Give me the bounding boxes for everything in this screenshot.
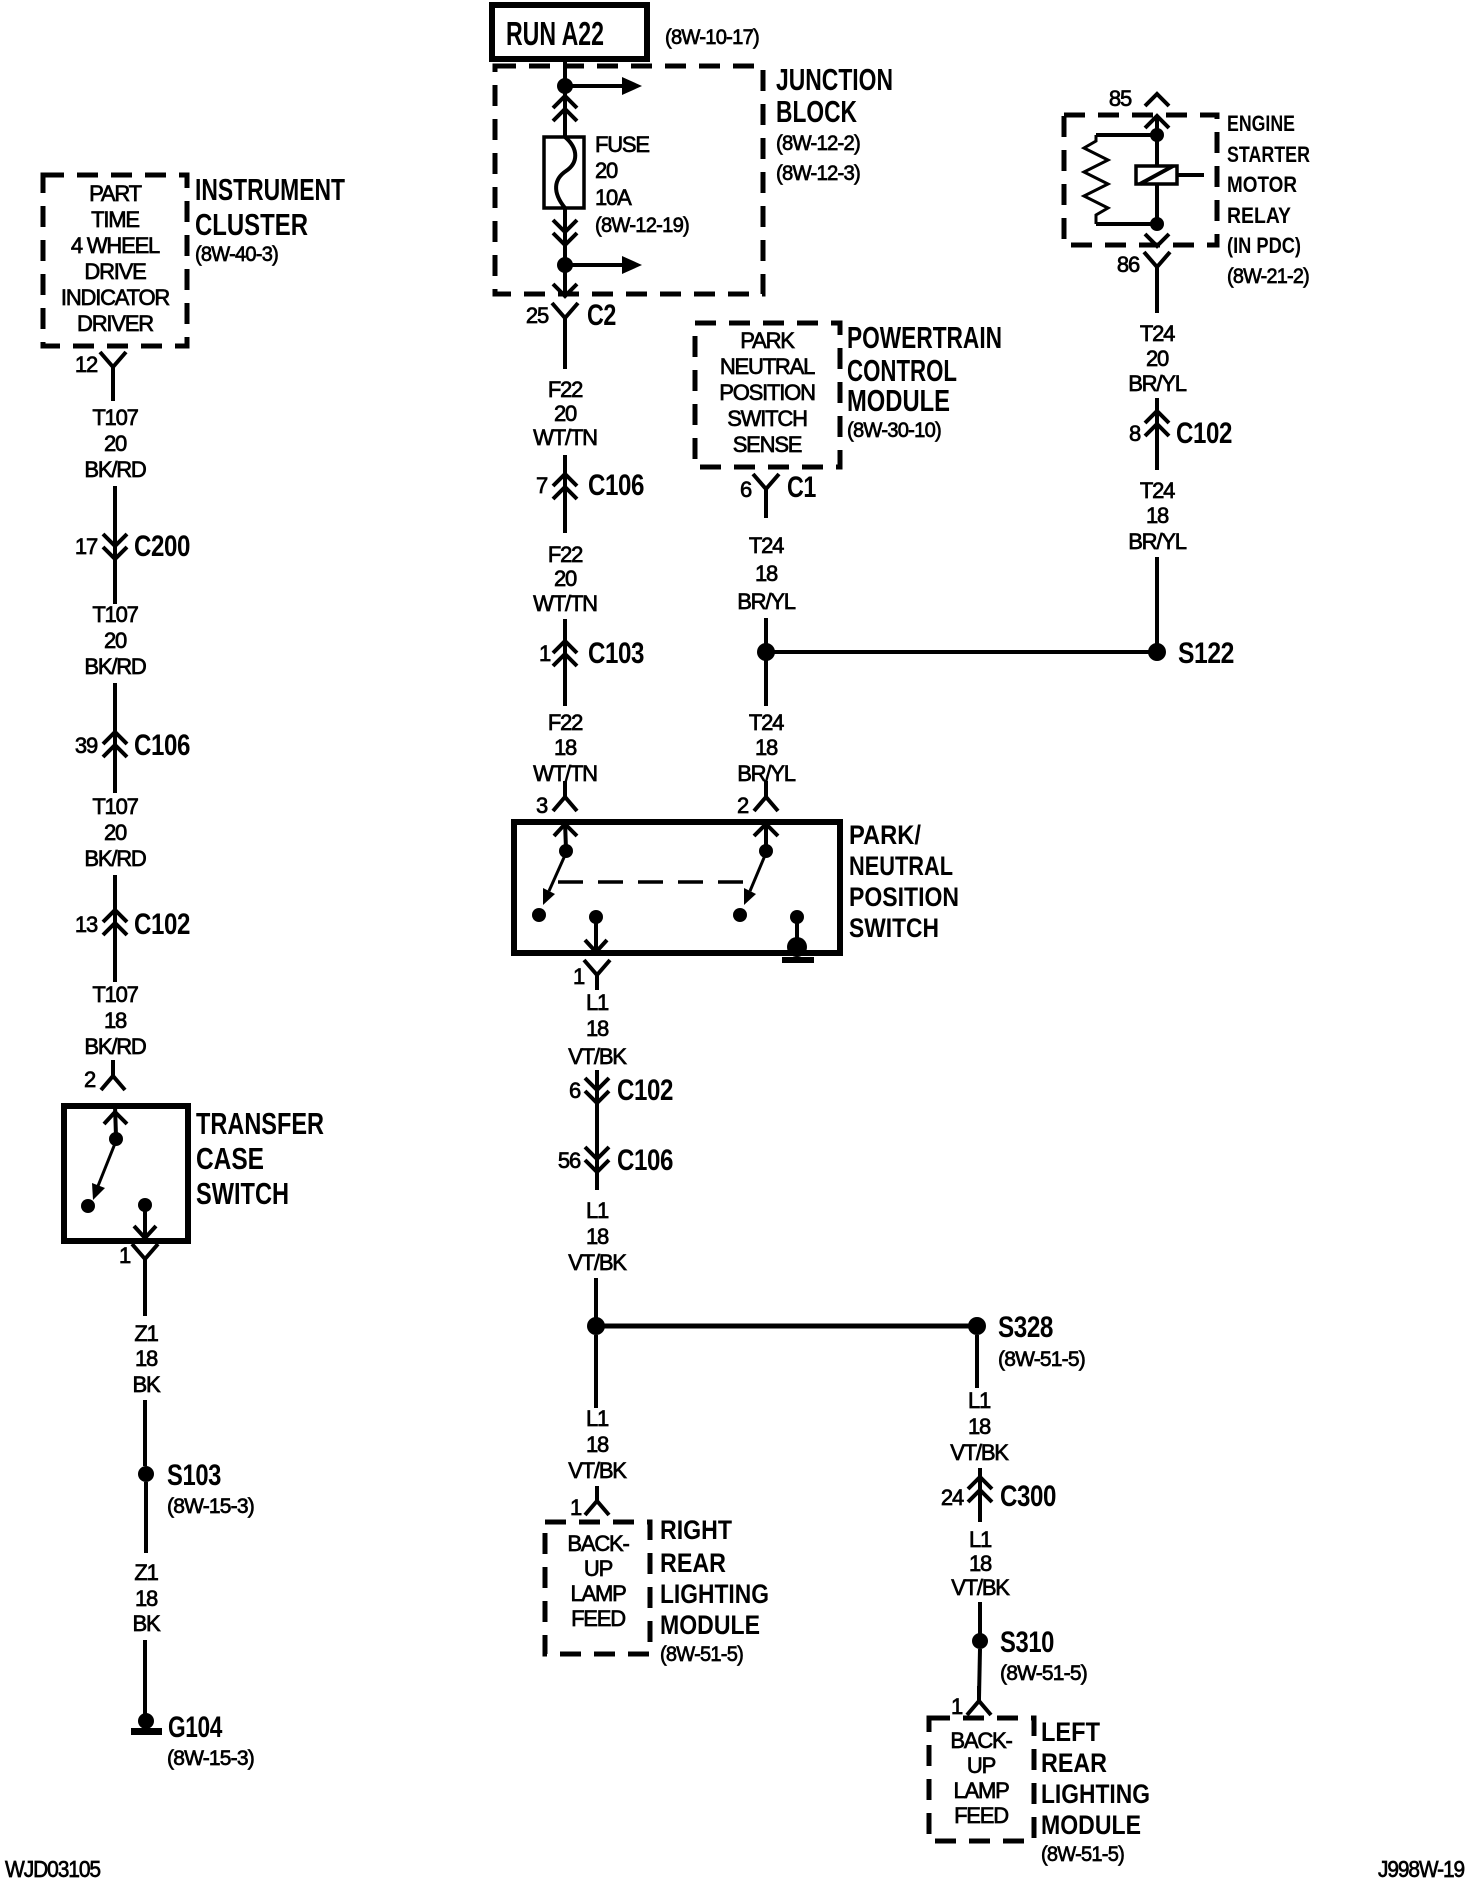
svg-text:C2: C2	[587, 299, 616, 332]
wire label L1 18 VT/BK	[568, 1198, 627, 1275]
svg-text:18: 18	[755, 735, 778, 760]
svg-text:BACK-: BACK-	[567, 1531, 629, 1556]
svg-text:ENGINE: ENGINE	[1227, 111, 1295, 136]
svg-text:2: 2	[84, 1067, 96, 1092]
svg-text:NEUTRAL: NEUTRAL	[720, 354, 815, 379]
engine starter motor relay box	[1064, 115, 1217, 245]
svg-text:18: 18	[586, 1432, 609, 1457]
svg-text:SWITCH: SWITCH	[727, 406, 807, 431]
svg-text:BK: BK	[133, 1372, 161, 1397]
svg-text:T107: T107	[92, 982, 138, 1007]
svg-text:NEUTRAL: NEUTRAL	[849, 851, 953, 881]
wire (relay coil feed)	[1155, 116, 1159, 224]
svg-text:18: 18	[135, 1346, 158, 1371]
svg-text:LEFT: LEFT	[1041, 1717, 1100, 1747]
wire	[764, 618, 768, 706]
svg-text:20: 20	[104, 628, 127, 653]
svg-text:VT/BK: VT/BK	[568, 1250, 627, 1275]
svg-text:18: 18	[586, 1016, 609, 1041]
svg-text:(8W-15-3): (8W-15-3)	[167, 1747, 254, 1770]
svg-text:LIGHTING: LIGHTING	[1041, 1779, 1150, 1809]
svg-text:C200: C200	[134, 530, 190, 563]
svg-text:F22: F22	[548, 710, 583, 735]
svg-text:17: 17	[75, 534, 98, 559]
svg-text:LAMP: LAMP	[953, 1778, 1009, 1803]
svg-text:10A: 10A	[595, 185, 632, 210]
svg-text:RUN A22: RUN A22	[506, 15, 604, 52]
wire	[563, 619, 567, 706]
svg-text:TRANSFER: TRANSFER	[196, 1106, 324, 1141]
left rear lighting module box: back-up lamp feed	[929, 1718, 1034, 1841]
relay coil	[1136, 166, 1204, 184]
connector C200 pin 17	[75, 530, 190, 563]
svg-text:INSTRUMENT: INSTRUMENT	[195, 172, 345, 207]
svg-text:T24: T24	[1140, 478, 1175, 503]
connector C102 pin 13	[75, 908, 190, 941]
svg-text:(8W-51-5): (8W-51-5)	[1041, 1843, 1124, 1866]
wire to S122	[766, 650, 1157, 654]
splice S328	[968, 1311, 1085, 1371]
label RIGHT REAR LIGHTING MODULE	[660, 1515, 769, 1666]
svg-text:18: 18	[968, 1414, 991, 1439]
label LEFT REAR LIGHTING MODULE	[1041, 1717, 1150, 1866]
svg-text:WJD03105: WJD03105	[5, 1856, 100, 1882]
svg-text:BLOCK: BLOCK	[776, 94, 857, 129]
svg-text:1: 1	[570, 1495, 582, 1520]
wire label T24 20 BR/YL	[1128, 321, 1187, 396]
svg-text:20: 20	[104, 431, 127, 456]
svg-text:12: 12	[75, 352, 98, 377]
svg-text:1: 1	[539, 641, 551, 666]
wire	[113, 683, 117, 793]
svg-text:MODULE: MODULE	[660, 1610, 760, 1640]
svg-text:20: 20	[1146, 346, 1169, 371]
svg-text:(8W-21-2): (8W-21-2)	[1227, 265, 1309, 288]
splice S122	[1148, 637, 1234, 670]
wire label T24 18 BR/YL	[737, 533, 796, 614]
wire label L1 18 VT/BK	[950, 1388, 1009, 1465]
svg-text:BK/RD: BK/RD	[84, 1034, 146, 1059]
connector chevrons (double up)	[553, 96, 577, 121]
svg-text:(8W-12-19): (8W-12-19)	[595, 214, 689, 237]
svg-text:(8W-30-10): (8W-30-10)	[847, 419, 941, 442]
svg-text:WT/TN: WT/TN	[533, 425, 597, 450]
switch output contact (pin 1)	[585, 910, 607, 952]
svg-text:T24: T24	[749, 533, 784, 558]
svg-text:C102: C102	[134, 908, 190, 941]
svg-text:BK: BK	[133, 1611, 161, 1636]
park/neutral position switch box	[514, 822, 840, 953]
svg-text:C102: C102	[617, 1074, 673, 1107]
splice node	[587, 1317, 605, 1335]
pin 3 connector	[536, 781, 577, 818]
wire	[143, 1400, 147, 1466]
svg-text:FUSE: FUSE	[595, 132, 649, 157]
svg-text:18: 18	[586, 1224, 609, 1249]
junction node with feed arrow	[557, 77, 642, 95]
svg-text:S122: S122	[1178, 637, 1234, 670]
connector C106 pin 39	[75, 729, 190, 762]
svg-text:DRIVE: DRIVE	[84, 259, 146, 284]
svg-text:(8W-12-3): (8W-12-3)	[776, 162, 860, 185]
wire label L1 18 VT/BK	[568, 1406, 627, 1483]
svg-text:C1: C1	[787, 471, 816, 504]
svg-text:L1: L1	[586, 990, 609, 1015]
svg-text:DRIVER: DRIVER	[77, 311, 153, 336]
svg-text:T24: T24	[749, 710, 784, 735]
svg-text:20: 20	[104, 820, 127, 845]
wire	[594, 1335, 598, 1408]
svg-text:(8W-15-3): (8W-15-3)	[167, 1495, 254, 1518]
svg-text:VT/BK: VT/BK	[950, 1440, 1009, 1465]
svg-text:L1: L1	[969, 1527, 992, 1552]
wire	[144, 1482, 148, 1553]
svg-text:S103: S103	[167, 1459, 221, 1492]
wire label F22 20 WT/TN	[533, 542, 597, 616]
svg-text:13: 13	[75, 912, 98, 937]
svg-text:POWERTRAIN: POWERTRAIN	[847, 320, 1002, 355]
wire label T107 20 BK/RD	[84, 405, 146, 482]
svg-text:2: 2	[737, 793, 749, 818]
connector C103 pin 1	[539, 637, 644, 670]
svg-text:3: 3	[536, 793, 548, 818]
label PARK/NEUTRAL POSITION SWITCH	[849, 820, 959, 943]
chevron at relay exit	[1145, 234, 1169, 246]
wire label F22 18 WT/TN	[533, 710, 597, 786]
svg-text:UP: UP	[584, 1556, 613, 1581]
wire	[113, 486, 117, 604]
wire to S328	[596, 1324, 977, 1329]
svg-text:L1: L1	[968, 1388, 991, 1413]
pin 86 connector	[1117, 252, 1170, 282]
chevron at relay entry	[1145, 116, 1169, 128]
splice S103	[138, 1459, 254, 1518]
svg-text:18: 18	[104, 1008, 127, 1033]
svg-text:VT/BK: VT/BK	[951, 1575, 1010, 1600]
switch contact (pin 3 side)	[532, 822, 577, 922]
svg-text:C103: C103	[588, 637, 644, 670]
svg-text:85: 85	[1109, 86, 1132, 111]
svg-text:BACK-: BACK-	[950, 1728, 1012, 1753]
svg-text:(8W-51-5): (8W-51-5)	[660, 1643, 743, 1666]
wire label L1 18 VT/BK	[568, 990, 627, 1069]
connector C102 pin 6	[569, 1074, 673, 1107]
svg-text:BK/RD: BK/RD	[84, 457, 146, 482]
wire label T24 18 BR/YL	[1128, 478, 1187, 554]
wire	[563, 59, 567, 137]
svg-text:1: 1	[951, 1694, 963, 1719]
label JUNCTION BLOCK	[776, 62, 893, 185]
connector C102 pin 8	[1129, 411, 1232, 450]
svg-text:T107: T107	[92, 794, 138, 819]
svg-text:CLUSTER: CLUSTER	[195, 207, 308, 242]
svg-text:18: 18	[554, 735, 577, 760]
junction block box	[495, 66, 763, 294]
switch gang dashed link	[558, 880, 749, 884]
svg-text:JUNCTION: JUNCTION	[776, 62, 893, 97]
chevron at block exit	[553, 284, 577, 296]
svg-text:86: 86	[1117, 252, 1140, 277]
svg-text:(8W-51-5): (8W-51-5)	[1000, 1662, 1087, 1685]
wire	[1155, 557, 1159, 652]
svg-text:PARK: PARK	[740, 328, 795, 353]
svg-text:C106: C106	[588, 469, 644, 502]
svg-text:BR/YL: BR/YL	[1128, 529, 1187, 554]
svg-text:TIME: TIME	[91, 207, 139, 232]
svg-text:C102: C102	[1176, 417, 1232, 450]
wire	[143, 1274, 147, 1316]
svg-text:STARTER: STARTER	[1227, 142, 1310, 167]
svg-text:LIGHTING: LIGHTING	[660, 1579, 769, 1609]
pin 85 connector	[1109, 86, 1169, 111]
svg-text:RIGHT: RIGHT	[660, 1515, 732, 1545]
pin 1 connector	[951, 1686, 991, 1719]
wire	[595, 1070, 599, 1190]
wire label L1 18 VT/BK	[951, 1527, 1010, 1600]
wire	[563, 455, 567, 533]
svg-text:4 WHEEL: 4 WHEEL	[71, 233, 160, 258]
connector C1 pin 6	[740, 471, 816, 504]
wire	[143, 1640, 147, 1714]
svg-text:(8W-40-3): (8W-40-3)	[195, 243, 278, 266]
connector chevrons (double down)	[553, 220, 577, 245]
wire	[563, 333, 567, 369]
svg-text:PARK/: PARK/	[849, 820, 921, 850]
svg-text:L1: L1	[586, 1406, 609, 1431]
connector C300 pin 24	[941, 1477, 1056, 1513]
wire (S328 branch)	[975, 1335, 979, 1388]
svg-text:(8W-10-17): (8W-10-17)	[665, 26, 759, 49]
svg-text:BK/RD: BK/RD	[84, 846, 146, 871]
svg-text:VT/BK: VT/BK	[568, 1044, 627, 1069]
svg-text:G104: G104	[168, 1711, 223, 1744]
connector C106 pin 7	[536, 469, 644, 502]
wire	[113, 875, 117, 982]
svg-text:MOTOR: MOTOR	[1227, 172, 1297, 197]
svg-text:PART: PART	[89, 181, 142, 206]
svg-text:BK/RD: BK/RD	[84, 654, 146, 679]
label POWERTRAIN CONTROL MODULE	[847, 320, 1002, 442]
svg-text:RELAY: RELAY	[1227, 203, 1291, 228]
wire label F22 20 WT/TN	[533, 377, 597, 450]
svg-text:8: 8	[1129, 421, 1141, 446]
svg-text:6: 6	[740, 477, 752, 502]
pin 1 connector	[119, 1243, 158, 1274]
svg-text:S328: S328	[998, 1311, 1053, 1344]
svg-text:C106: C106	[617, 1144, 673, 1177]
svg-text:6: 6	[569, 1078, 581, 1103]
svg-text:1: 1	[573, 964, 585, 989]
svg-text:39: 39	[75, 733, 98, 758]
svg-text:T107: T107	[92, 405, 138, 430]
pin 12 connector	[75, 352, 126, 382]
svg-text:MODULE: MODULE	[847, 383, 950, 418]
svg-text:(8W-51-5): (8W-51-5)	[998, 1348, 1085, 1371]
wire label Z1 18 BK	[133, 1321, 161, 1397]
svg-text:SWITCH: SWITCH	[849, 913, 939, 943]
wire label T107 20 BK/RD	[84, 602, 146, 679]
svg-text:Z1: Z1	[134, 1321, 158, 1346]
svg-text:SENSE: SENSE	[733, 432, 802, 457]
wire label T24 18 BR/YL	[737, 710, 796, 786]
svg-text:BR/YL: BR/YL	[1128, 371, 1187, 396]
connector C2 pin 25	[526, 299, 616, 333]
svg-text:Z1: Z1	[134, 1560, 158, 1585]
svg-text:SWITCH: SWITCH	[196, 1176, 289, 1211]
svg-text:J998W-19: J998W-19	[1378, 1856, 1464, 1882]
right rear lighting module box: back-up lamp feed	[545, 1522, 650, 1654]
svg-text:L1: L1	[586, 1198, 609, 1223]
svg-text:T24: T24	[1140, 321, 1175, 346]
svg-text:BR/YL: BR/YL	[737, 589, 796, 614]
switch internal ground	[782, 910, 814, 963]
pin 1 connector	[570, 1486, 609, 1520]
svg-text:20: 20	[595, 158, 618, 183]
svg-text:REAR: REAR	[660, 1548, 726, 1578]
transfer case switch contact (pin 1 side)	[134, 1198, 156, 1238]
svg-text:F22: F22	[548, 542, 583, 567]
svg-text:56: 56	[558, 1148, 581, 1173]
svg-text:FEED: FEED	[954, 1803, 1008, 1828]
wire label Z1 18 BK	[133, 1560, 161, 1636]
fuse label	[595, 132, 689, 237]
fuse 20 10A	[544, 137, 584, 208]
svg-text:T107: T107	[92, 602, 138, 627]
svg-text:20: 20	[554, 401, 577, 426]
svg-text:18: 18	[135, 1586, 158, 1611]
wire	[979, 1649, 980, 1698]
svg-text:18: 18	[969, 1551, 992, 1576]
svg-text:FEED: FEED	[571, 1606, 625, 1631]
svg-text:25: 25	[526, 303, 549, 328]
pin 2 connector	[737, 781, 778, 818]
resistor (relay suppression)	[1084, 135, 1157, 224]
wire	[978, 1602, 982, 1634]
svg-text:INDICATOR: INDICATOR	[61, 285, 169, 310]
svg-text:UP: UP	[967, 1753, 996, 1778]
svg-text:(IN PDC): (IN PDC)	[1227, 233, 1301, 258]
svg-text:C106: C106	[134, 729, 190, 762]
label ENGINE STARTER MOTOR RELAY (IN PDC)	[1227, 111, 1310, 288]
wire	[111, 382, 115, 401]
transfer case switch box	[64, 1106, 188, 1241]
svg-text:18: 18	[1146, 503, 1169, 528]
connector C106 pin 56	[558, 1144, 673, 1177]
junction node with feed arrow	[557, 256, 642, 274]
splice node to S122	[757, 643, 775, 661]
wire	[563, 208, 567, 296]
wire	[1155, 282, 1159, 313]
wire label T107 20 BK/RD	[84, 794, 146, 871]
wire label T107 18 BK/RD	[84, 982, 146, 1059]
splice S310	[972, 1626, 1087, 1685]
node 86 junction	[1150, 217, 1164, 231]
svg-text:POSITION: POSITION	[719, 380, 815, 405]
instrument cluster: part time 4WD indicator driver box	[43, 175, 187, 346]
wire	[1155, 398, 1159, 470]
svg-text:20: 20	[554, 566, 577, 591]
svg-text:7: 7	[536, 473, 548, 498]
svg-text:REAR: REAR	[1041, 1748, 1107, 1778]
wire	[764, 504, 768, 518]
svg-text:1: 1	[119, 1243, 131, 1268]
svg-text:WT/TN: WT/TN	[533, 591, 597, 616]
svg-text:MODULE: MODULE	[1041, 1810, 1141, 1840]
pin 1 connector	[573, 960, 610, 990]
powertrain control module box	[695, 323, 840, 467]
svg-text:(8W-12-2): (8W-12-2)	[776, 132, 860, 155]
wire	[594, 1278, 598, 1326]
label TRANSFER CASE SWITCH	[196, 1106, 324, 1211]
ground G104	[131, 1711, 254, 1770]
node 85 junction	[1150, 128, 1164, 142]
pin 2 connector	[84, 1060, 125, 1092]
svg-text:VT/BK: VT/BK	[568, 1458, 627, 1483]
label INSTRUMENT CLUSTER	[195, 172, 345, 266]
svg-text:LAMP: LAMP	[570, 1581, 626, 1606]
svg-text:S310: S310	[1000, 1626, 1054, 1659]
svg-text:F22: F22	[548, 377, 583, 402]
switch contact (pin 2 side)	[733, 822, 778, 922]
svg-text:C300: C300	[1000, 1480, 1056, 1513]
transfer case switch contact (pin 2 side)	[81, 1106, 127, 1213]
svg-text:POSITION: POSITION	[849, 882, 959, 912]
wire	[978, 1468, 982, 1522]
svg-text:24: 24	[941, 1485, 964, 1510]
RUN A22 feed box	[492, 5, 647, 59]
svg-text:18: 18	[755, 561, 778, 586]
svg-text:CASE: CASE	[196, 1141, 264, 1176]
